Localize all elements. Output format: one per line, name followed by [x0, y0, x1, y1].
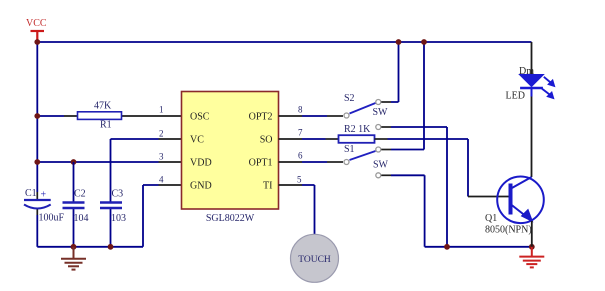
switch S1 [344, 144, 389, 178]
wire: VCC rail down to LED [531, 42, 533, 74]
wire: S1 lower throw down to ground rail [381, 174, 391, 176]
node: VCC junction [34, 39, 40, 45]
svg-text:OSC: OSC [190, 112, 210, 123]
svg-text:R1: R1 [100, 120, 112, 131]
wire: LED cathode to collector [531, 97, 533, 178]
svg-text:2: 2 [159, 129, 164, 139]
pin stub: pin 8 [279, 115, 303, 117]
IC U1 SGL8022W [182, 92, 279, 225]
switch S2 [344, 93, 388, 130]
svg-text:VDD: VDD [190, 158, 212, 169]
wire: VC (pin 2) to C3 column [111, 138, 159, 140]
node: C3 rail junction [108, 244, 114, 250]
wire: bottom-left ground rail [37, 246, 143, 248]
wire: R1 pins to IC pin 1 [64, 115, 182, 117]
svg-text:+: + [41, 190, 47, 201]
wire: bottom-right ground rail [425, 246, 532, 248]
node: R1 row junction [34, 113, 40, 119]
svg-text:104: 104 [74, 213, 89, 224]
svg-text:SGL8022W: SGL8022W [206, 213, 255, 224]
svg-text:1: 1 [159, 105, 164, 115]
pin stub: pin 6 [279, 161, 303, 163]
svg-text:VCC: VCC [26, 18, 47, 29]
node: C2 tap junction [71, 159, 77, 165]
wire: GND (pin 4) drop [143, 185, 159, 247]
wire: C3 column vertical [110, 139, 112, 247]
svg-text:SO: SO [260, 135, 273, 146]
svg-text:3: 3 [159, 152, 164, 162]
wire: pin 5 (TI) to touch pad [302, 185, 315, 235]
svg-text:LED: LED [506, 91, 525, 102]
pin stub: pin 4 [159, 184, 182, 186]
wire: pin 7 to R2 [302, 138, 326, 140]
capacitor C3 103 [100, 189, 126, 225]
node: ground tap junction [71, 244, 77, 250]
wire: R2 to transistor base [375, 138, 388, 140]
pin stub: pin 5 [279, 184, 303, 186]
svg-text:R2 1K: R2 1K [344, 124, 371, 135]
resistor R1 [78, 101, 122, 131]
wire: VDD (pin 3) row [37, 161, 158, 163]
ground (left) [61, 247, 86, 270]
svg-text:8: 8 [298, 105, 303, 115]
wire: left rail to R1 [37, 115, 64, 117]
node: VDD left rail junction [34, 159, 40, 165]
svg-text:C2: C2 [74, 189, 86, 200]
node: S2 drop junction [444, 244, 450, 250]
svg-text:47K: 47K [94, 101, 112, 112]
wire: S2 upper throw to VCC rail [381, 101, 391, 103]
svg-text:TI: TI [263, 181, 272, 192]
svg-text:Q1: Q1 [485, 213, 497, 224]
wire: emitter to ground rail [531, 221, 533, 247]
wire: S1 upper throw to VCC rail [381, 149, 391, 151]
touch pad TOUCH [291, 234, 339, 282]
svg-text:Dm: Dm [519, 66, 534, 77]
transistor Q1 8050(NPN) [485, 177, 544, 236]
LED Dm [506, 66, 555, 102]
node: emitter ground junction [529, 244, 535, 250]
pin stub: pin 3 [159, 161, 182, 163]
node: rail junction for S1 [421, 39, 427, 45]
svg-text:7: 7 [298, 128, 303, 138]
svg-text:C3: C3 [112, 189, 124, 200]
wire: C2 column vertical [73, 162, 75, 247]
svg-text:S2: S2 [344, 93, 355, 104]
svg-text:8050(NPN): 8050(NPN) [485, 225, 532, 236]
svg-text:GND: GND [190, 181, 212, 192]
svg-text:OPT2: OPT2 [249, 112, 273, 123]
svg-text:VC: VC [190, 135, 204, 146]
svg-text:C1: C1 [25, 188, 37, 199]
wire: left vertical rail [36, 42, 38, 192]
svg-text:5: 5 [297, 175, 302, 185]
svg-text:OPT1: OPT1 [249, 158, 273, 169]
svg-text:100uF: 100uF [39, 213, 65, 224]
power symbol VCC [26, 18, 47, 41]
svg-text:103: 103 [111, 213, 126, 224]
node: rail junction for S2 [396, 39, 402, 45]
svg-text:SW: SW [373, 160, 389, 171]
wire: VCC top rail [37, 41, 531, 43]
resistor R2 1K [339, 124, 375, 143]
wire: S2 lower throw down to ground rail [381, 126, 391, 128]
wire: C1 column through capacitor [36, 192, 38, 215]
svg-text:SW: SW [373, 107, 389, 118]
svg-text:4: 4 [159, 175, 164, 185]
svg-text:6: 6 [298, 151, 303, 161]
wire: pin 8 to switch S2 [302, 115, 327, 117]
capacitor C2 104 [63, 189, 89, 225]
svg-text:S1: S1 [344, 144, 355, 155]
pin stub: pin 2 [159, 138, 182, 140]
ground (right) [519, 247, 544, 268]
pin stub: pin 7 [279, 138, 303, 140]
wire: pin 6 to switch S1 [302, 161, 327, 163]
capacitor C1 100uF [24, 188, 65, 224]
svg-text:TOUCH: TOUCH [298, 255, 331, 265]
